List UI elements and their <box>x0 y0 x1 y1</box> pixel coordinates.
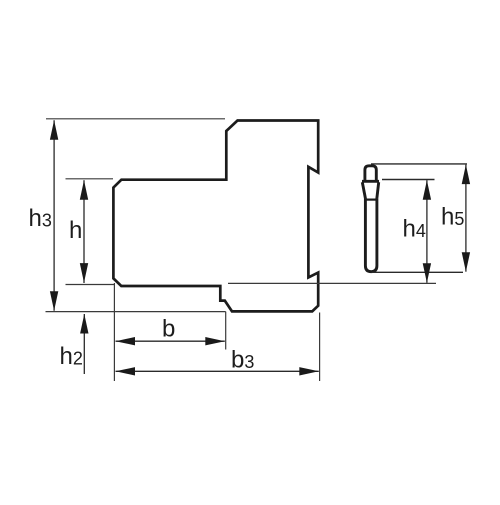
extension line h3 top <box>46 118 225 120</box>
dimension line h5 <box>465 165 467 272</box>
probe body <box>365 199 377 272</box>
arrow h4 down <box>423 263 431 283</box>
arrow b left <box>116 337 136 345</box>
extension line h top <box>66 178 114 180</box>
arrow h3 down <box>50 291 58 311</box>
extension line b3 right vertical <box>319 313 321 382</box>
arrow h3 up <box>50 120 58 140</box>
arrow b right <box>205 337 225 345</box>
dimension line h4 <box>426 180 428 283</box>
dimension line h2 <box>83 314 85 374</box>
extension line probe bottom <box>372 271 464 273</box>
dimension line b <box>116 340 225 342</box>
probe cap <box>365 166 376 181</box>
dimension line h3 <box>53 120 55 311</box>
arrow h down <box>80 263 88 283</box>
extension line collar top (h4) <box>382 179 435 181</box>
probe collar top bar <box>362 180 379 183</box>
svg-text:b: b <box>162 316 175 343</box>
svg-text:h: h <box>69 217 82 244</box>
arrow b3 right <box>299 367 319 375</box>
dimension line b3 <box>116 370 319 372</box>
arrow h2 up <box>80 314 88 334</box>
arrow h5 up <box>462 165 470 185</box>
extension line b left vertical <box>113 283 115 381</box>
dimension line h <box>83 180 85 283</box>
arrow b3 left <box>116 367 136 375</box>
arrow h4 up <box>423 180 431 200</box>
extension line probe top (h5) <box>371 163 467 165</box>
probe collar taper right <box>377 182 379 199</box>
arrow h up <box>80 180 88 200</box>
extension line mounting plane right <box>228 282 436 284</box>
probe collar bottom bar <box>365 199 377 201</box>
device body outline <box>113 121 318 312</box>
arrow h5 down <box>462 252 470 272</box>
extension line bottom reference <box>46 311 226 313</box>
extension line b right vertical <box>225 312 227 350</box>
extension line h bottom <box>66 284 115 286</box>
probe collar taper left <box>362 182 365 199</box>
